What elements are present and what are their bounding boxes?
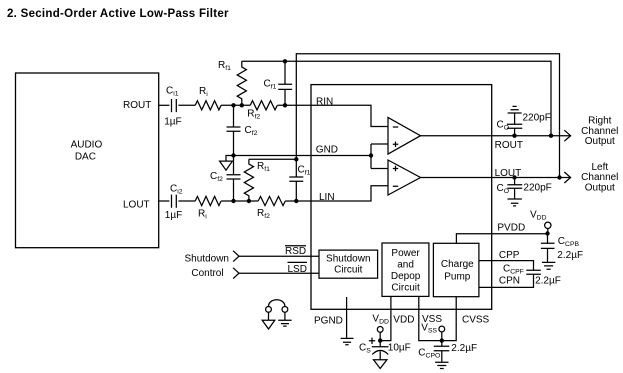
svg-text:Right: Right — [588, 115, 612, 126]
capacitor CCPO — [434, 341, 450, 362]
svg-text:GND: GND — [316, 145, 338, 156]
wire LIN to op-amp — [311, 186, 388, 201]
terminal VDD top (circle) — [545, 222, 551, 228]
svg-text:CO: CO — [497, 183, 510, 195]
svg-text:CCPB: CCPB — [558, 236, 580, 248]
wire VDD pin — [380, 296, 391, 340]
svg-text:Cf2: Cf2 — [210, 171, 223, 183]
svg-text:DAC: DAC — [75, 151, 96, 162]
junction Co top — [512, 134, 516, 138]
junction Co bottom — [512, 175, 516, 179]
capacitor Ci2 — [172, 195, 177, 208]
wire RIN to op-amp — [311, 105, 388, 126]
svg-text:RSD: RSD — [285, 246, 306, 257]
svg-text:Cf2: Cf2 — [245, 125, 258, 137]
AUDIO DAC box — [16, 73, 159, 248]
svg-text:Circuit: Circuit — [391, 282, 420, 293]
svg-text:220pF: 220pF — [523, 183, 551, 194]
svg-text:Power: Power — [391, 248, 420, 259]
resistor Rf2 (bottom) — [258, 196, 285, 205]
wire ROUT output — [421, 135, 571, 137]
Shutdown Circuit box — [319, 250, 378, 278]
resistor Ri (bottom) — [195, 196, 221, 205]
svg-text:VDD: VDD — [530, 210, 547, 222]
feedback rail bottom channel — [249, 158, 296, 160]
wire Ci1 to Ri — [178, 104, 195, 106]
arrow right channel — [564, 130, 570, 141]
svg-text:2.2µF: 2.2µF — [535, 276, 561, 287]
wire LOUT(DAC) to Ci2 — [159, 200, 170, 202]
svg-text:Circuit: Circuit — [334, 265, 363, 276]
svg-text:Output: Output — [585, 136, 615, 147]
wire LSD — [239, 272, 319, 274]
wire Ri to node A bottom — [221, 200, 258, 202]
wire CPP — [479, 261, 534, 271]
svg-text:Rf1: Rf1 — [257, 161, 270, 173]
capacitor Co (top) — [507, 113, 522, 136]
svg-text:PVDD: PVDD — [497, 223, 525, 234]
resistor Rf1 (top, vertical) — [237, 61, 246, 105]
node B bottom — [294, 199, 298, 203]
svg-text:2. Secind-Order Active Low-Pas: 2. Secind-Order Active Low-Pass Filter — [7, 8, 229, 20]
svg-text:CPP: CPP — [499, 250, 520, 261]
wire GND to op-amps — [371, 144, 388, 169]
capacitor Ci1 — [172, 99, 177, 112]
svg-text:CS: CS — [359, 343, 371, 355]
wire Rf2 to LIN — [285, 200, 311, 202]
node Rf1 bottom (top channel) — [240, 103, 244, 107]
svg-text:220pF: 220pF — [523, 113, 551, 124]
ground PGND — [341, 338, 354, 344]
svg-text:2.2µF: 2.2µF — [451, 343, 477, 354]
svg-text:ROUT: ROUT — [495, 140, 523, 151]
ground arrow (open) — [220, 161, 233, 170]
ground below Co bottom — [508, 199, 522, 206]
svg-text:Control: Control — [191, 268, 223, 279]
svg-text:Rf2: Rf2 — [247, 109, 260, 121]
junction VDD/Cs — [378, 338, 382, 342]
svg-text:ROUT: ROUT — [123, 100, 151, 111]
svg-text:10µF: 10µF — [388, 343, 411, 354]
GND rail — [226, 156, 371, 162]
capacitor Cf1 (bottom) — [289, 159, 303, 201]
capacitor Cf2 (top) — [227, 105, 241, 155]
svg-text:Pump: Pump — [444, 272, 471, 283]
svg-text:Cf1: Cf1 — [298, 165, 311, 177]
node Rf1 bottom (bottom channel) — [247, 199, 251, 203]
IC box — [311, 85, 492, 310]
svg-text:Shutdown: Shutdown — [326, 253, 370, 264]
svg-text:1µF: 1µF — [164, 116, 181, 127]
ground arrow below Cs — [374, 360, 387, 369]
wire VSS pin — [419, 296, 456, 340]
junction VSS/CCPO — [440, 338, 444, 342]
capacitor CCPF — [526, 270, 541, 274]
svg-text:Shutdown: Shutdown — [185, 254, 229, 265]
resistor Rf1 (bottom, vertical) — [244, 159, 253, 201]
svg-text:CCPF: CCPF — [503, 264, 524, 276]
op-amp U1 (top) — [388, 118, 421, 155]
capacitor Cs (polarized) — [372, 341, 389, 360]
terminal VDD (circle) — [377, 327, 383, 333]
resistor Rf2 (top) — [250, 101, 277, 110]
svg-text:Rf1: Rf1 — [218, 60, 231, 72]
svg-text:LOUT: LOUT — [495, 168, 522, 179]
Power and Depop Circuit box — [382, 243, 429, 296]
wire RSD — [239, 255, 319, 257]
capacitor Cf1 (top) — [278, 61, 292, 105]
svg-text:Output: Output — [585, 182, 615, 193]
svg-text:LSD: LSD — [288, 264, 307, 275]
input arrow RSD — [233, 251, 239, 262]
wire Ci2 to Ri — [178, 200, 195, 202]
outer feedback wire (LOUT) — [296, 54, 559, 178]
svg-text:Ci1: Ci1 — [166, 85, 179, 97]
svg-text:CVSS: CVSS — [462, 315, 490, 326]
svg-text:VDD: VDD — [393, 314, 414, 325]
wire Ri to node A top — [221, 104, 250, 106]
plus sign Cs — [369, 338, 375, 344]
node B top — [283, 103, 287, 107]
junction GND — [369, 153, 373, 157]
svg-text:Depop: Depop — [391, 271, 421, 282]
svg-text:Charge: Charge — [441, 259, 474, 270]
svg-text:CCPO: CCPO — [418, 348, 440, 360]
svg-text:VDD: VDD — [372, 313, 389, 325]
junction feedback ROUT — [549, 134, 553, 138]
capacitor CCPB — [541, 234, 555, 263]
feedback rail top channel — [242, 61, 551, 135]
wire PVDD — [456, 234, 547, 244]
wire ROUT to Ci1 — [159, 104, 170, 106]
junction feedback LOUT — [557, 175, 561, 179]
svg-text:Cf1: Cf1 — [264, 79, 277, 91]
ground (inverted) above Co top — [508, 106, 522, 113]
node Cf1 top (top channel) — [283, 59, 287, 63]
op-amp U2 (bottom) — [388, 160, 421, 195]
svg-text:PGND: PGND — [314, 315, 343, 326]
wire CPN — [479, 274, 534, 287]
svg-text:1µF: 1µF — [165, 210, 182, 221]
ground below CCPB — [542, 262, 556, 269]
svg-text:CO: CO — [497, 120, 510, 132]
junction Cf2s on GND rail — [231, 153, 235, 157]
input arrow LSD — [233, 268, 239, 279]
terminal VSS (circle) — [439, 326, 445, 332]
capacitor Co (bottom) — [507, 178, 522, 199]
svg-text:Ri: Ri — [199, 86, 208, 98]
svg-text:AUDIO: AUDIO — [71, 140, 103, 151]
svg-text:CPN: CPN — [499, 276, 520, 287]
wire LOUT output — [421, 177, 571, 179]
wire PGND — [346, 297, 348, 338]
wire Rf2 to node B top — [278, 104, 312, 106]
ground below CCPO — [435, 362, 448, 368]
resistor Ri (top) — [195, 101, 221, 110]
svg-text:Ci2: Ci2 — [170, 184, 183, 196]
junction bottom feedback — [294, 157, 298, 161]
svg-text:Rf2: Rf2 — [257, 208, 270, 220]
node A top — [231, 103, 235, 107]
arrow left channel — [564, 172, 570, 183]
legend symbol (ground tie) — [266, 307, 272, 313]
Charge Pump box — [433, 243, 479, 296]
junction PVDD/CCPB — [545, 231, 549, 235]
capacitor Cf2 (bottom) — [227, 156, 241, 202]
node A bottom — [231, 199, 235, 203]
svg-text:and: and — [397, 259, 414, 270]
svg-text:2.2µF: 2.2µF — [557, 250, 583, 261]
svg-text:LOUT: LOUT — [123, 200, 150, 211]
svg-text:Ri: Ri — [198, 209, 207, 221]
